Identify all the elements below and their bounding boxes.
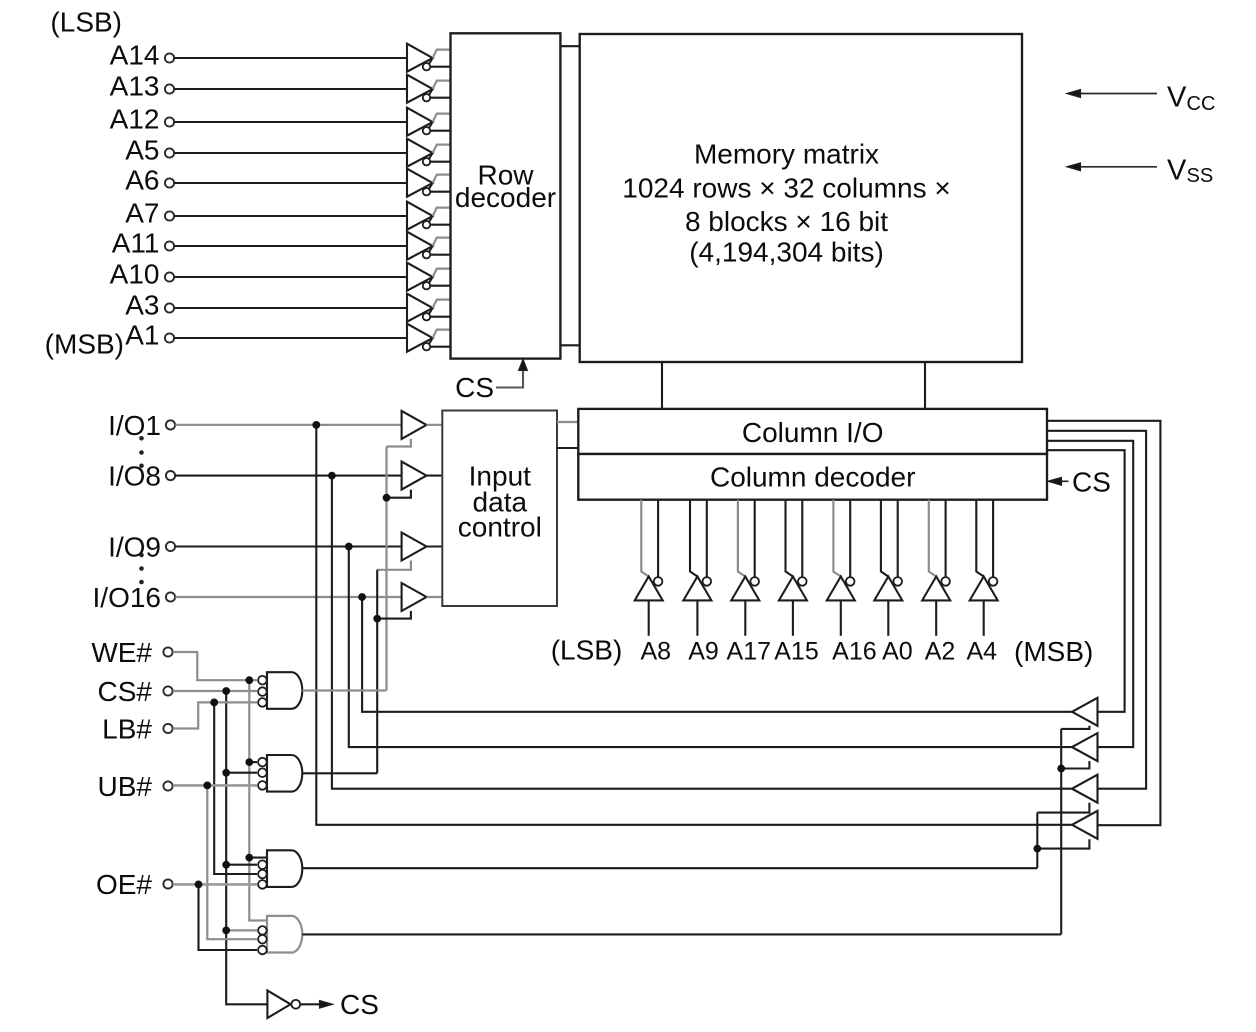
- I/O pin I/O16 terminal and wire: [93, 582, 402, 613]
- I/O pin I/O9 terminal and wire: [108, 532, 402, 563]
- wire WE# to gate3 plain input: [249, 857, 267, 859]
- ellipsis dots between I/O1 and I/O8: [139, 436, 144, 468]
- address buffer for A6 (true/complement outputs): [407, 169, 451, 197]
- I/O pin I/O8 terminal and wire: [108, 461, 402, 492]
- WE# wire to gate1: [173, 652, 257, 680]
- AND gate G3 (read lower byte) with input bubbles: [258, 850, 302, 888]
- svg-text:A12: A12: [110, 104, 160, 135]
- G1 output wire to input buffers 1-2 enable: [302, 689, 386, 691]
- junction CS#-gate2: [222, 769, 230, 777]
- UB# vertical wire to gate4: [207, 785, 257, 939]
- label A17: [727, 638, 771, 666]
- label (MSB) bottom: [1014, 636, 1093, 667]
- svg-text:A13: A13: [110, 71, 160, 102]
- input data buffer 3 (triangle): [402, 533, 443, 561]
- WE# vertical distribution wire: [249, 680, 267, 920]
- control input UB# terminal: [98, 771, 173, 802]
- column decoder box: [578, 454, 1047, 500]
- svg-text:CS: CS: [455, 372, 494, 403]
- svg-text:(4,194,304 bits): (4,194,304 bits): [689, 237, 884, 268]
- enable hook output buffer 2: [1061, 761, 1089, 768]
- enable hook buffer 4: [377, 611, 411, 619]
- label (MSB) left of A1: [45, 329, 124, 360]
- address input A11 terminal and wire: [112, 228, 407, 259]
- output buffer 4 (left triangle): [1072, 811, 1098, 839]
- svg-text:LB#: LB#: [102, 714, 152, 745]
- long vertical from I/O9 to output line: [349, 547, 1072, 748]
- svg-text:A5: A5: [125, 135, 159, 166]
- long vertical from I/O1 to output line: [316, 425, 1072, 825]
- junction UB#-gate2: [203, 782, 211, 790]
- row decoder U-ROWDEC box: [451, 33, 561, 358]
- UB# wire to gate2: [173, 784, 257, 787]
- CS# vertical distribution wire: [226, 691, 267, 1004]
- enable wire gate4 to output buffers 1-2: [1060, 729, 1062, 935]
- svg-text:A11: A11: [112, 228, 160, 259]
- svg-text:CS: CS: [1072, 466, 1111, 497]
- address input A10 terminal and wire: [110, 259, 407, 290]
- label (LSB) top: [50, 7, 122, 38]
- svg-text:A4: A4: [967, 638, 998, 666]
- Vcc power input arrow: [1069, 82, 1216, 116]
- output buffer 2 (left triangle): [1072, 733, 1098, 761]
- address input A3 terminal and wire: [125, 290, 407, 321]
- control input CS# terminal: [98, 676, 173, 707]
- long vertical from I/O8 to output line: [332, 476, 1072, 789]
- wire WE# to gate2 top input: [249, 761, 257, 763]
- address buffer for A13 (true/complement outputs): [407, 75, 451, 103]
- wire CS# to gate4 top input: [226, 929, 257, 931]
- junction WE#-gate2: [245, 758, 253, 766]
- junction I/O1: [312, 421, 320, 429]
- enable hook output buffer 4: [1037, 839, 1089, 848]
- svg-text:8 blocks × 16 bit: 8 blocks × 16 bit: [685, 206, 888, 237]
- address buffer for A3 (true/complement outputs): [407, 294, 451, 322]
- CS input to column decoder (arrow left): [1050, 466, 1111, 497]
- svg-text:V: V: [1167, 82, 1187, 114]
- wire matrix to column I/O right: [924, 362, 926, 409]
- svg-text:(MSB): (MSB): [1014, 636, 1093, 667]
- memory matrix box: [580, 34, 1022, 362]
- AND gate G2 (write upper byte) with input bubbles: [258, 755, 302, 792]
- G4 output wire to output buffers 1-2 enable: [302, 933, 1061, 935]
- svg-text:A9: A9: [688, 638, 719, 666]
- LB# vertical wire to gate3: [214, 702, 257, 874]
- svg-text:I/O9: I/O9: [108, 532, 161, 563]
- column I/O output line 3 (to output buffer 2): [1047, 441, 1133, 747]
- wire row decoder to matrix (top): [560, 45, 579, 47]
- address input A5 terminal and wire: [125, 135, 407, 166]
- column I/O output line 4 (to output buffer 1): [1047, 450, 1125, 712]
- G2 output wire to input buffers 3-4 enable: [302, 772, 377, 774]
- svg-text:decoder: decoder: [455, 182, 556, 213]
- junction CS#-gate3: [222, 861, 230, 869]
- junction WE#-gate3: [245, 854, 253, 862]
- svg-text:A14: A14: [110, 40, 160, 71]
- wire CS# to gate2 middle input: [226, 772, 257, 774]
- svg-text:1024 rows × 32 columns ×: 1024 rows × 32 columns ×: [622, 172, 950, 203]
- svg-text:A15: A15: [774, 638, 818, 666]
- column I/O output line 1 (to output buffer 4): [1047, 421, 1160, 825]
- label (LSB) bottom: [551, 635, 623, 666]
- svg-text:Column I/O: Column I/O: [742, 417, 884, 448]
- svg-text:CC: CC: [1187, 93, 1216, 115]
- junction CS#-gate1: [222, 687, 230, 695]
- address buffer for A11 (true/complement outputs): [407, 232, 451, 260]
- svg-text:A3: A3: [125, 290, 159, 321]
- svg-text:(MSB): (MSB): [45, 329, 124, 360]
- svg-text:SS: SS: [1187, 165, 1214, 187]
- svg-text:A16: A16: [832, 638, 876, 666]
- address buffer for A14 (true/complement outputs): [407, 44, 451, 72]
- column address buffer A4 (up triangle with bubble): [970, 500, 998, 636]
- control input LB# terminal: [102, 714, 172, 745]
- junction output buffers 1-2 enable: [1057, 765, 1065, 773]
- address input A14 terminal and wire: [110, 40, 407, 71]
- LB# wire to gate1: [173, 702, 257, 728]
- svg-text:(LSB): (LSB): [50, 7, 122, 38]
- CS inverter at bottom: [267, 991, 300, 1019]
- svg-text:control: control: [458, 511, 542, 542]
- svg-text:I/O16: I/O16: [93, 582, 161, 613]
- address input A6 terminal and wire: [125, 165, 407, 196]
- junction CS#-gate4: [222, 927, 230, 935]
- label A2: [925, 638, 956, 666]
- column address buffer A0 (up triangle with bubble): [874, 500, 902, 636]
- label A9: [688, 638, 719, 666]
- OE# wire to gate3: [173, 883, 257, 886]
- column address buffer A17 (up triangle with bubble): [731, 500, 759, 636]
- svg-text:UB#: UB#: [98, 771, 153, 802]
- svg-text:A1: A1: [125, 320, 159, 351]
- input data buffer 2 (triangle): [402, 462, 443, 490]
- address buffer for A12 (true/complement outputs): [407, 108, 451, 136]
- enable wire from gate1 to buffers 1-2: [385, 447, 387, 691]
- svg-text:A17: A17: [727, 638, 771, 666]
- label A16: [832, 638, 876, 666]
- enable wire gate3 to output buffers 3-4: [1036, 813, 1038, 869]
- enable hook output buffer 3: [1037, 803, 1089, 813]
- junction LB#-gate1: [210, 699, 218, 707]
- svg-text:Column decoder: Column decoder: [710, 462, 915, 493]
- CS# wire to gate1: [173, 690, 257, 692]
- svg-text:A0: A0: [882, 638, 913, 666]
- address input A1 terminal and wire: [125, 320, 407, 351]
- svg-text:CS#: CS#: [98, 676, 153, 707]
- CS input to row decoder (arrow up): [455, 361, 527, 404]
- enable hook output buffer 1: [1061, 726, 1089, 729]
- svg-text:I/O1: I/O1: [108, 410, 161, 441]
- junction I/O9: [345, 543, 353, 551]
- svg-text:Memory matrix: Memory matrix: [694, 139, 879, 170]
- wire input data control to column I/O (lower): [557, 447, 578, 449]
- junction OE#: [195, 881, 203, 889]
- address buffer for A10 (true/complement outputs): [407, 263, 451, 291]
- output buffer 1 (left triangle): [1072, 698, 1098, 726]
- enable hook buffer 2: [387, 490, 411, 498]
- junction output buffers 3-4 enable: [1033, 845, 1041, 853]
- ellipsis dots between I/O9 and I/O16: [139, 553, 144, 585]
- column I/O output line 2 (to output buffer 3): [1047, 431, 1146, 789]
- wire input data control to column I/O (upper): [557, 421, 578, 423]
- long vertical from I/O16 to output line: [362, 597, 1072, 712]
- address input A13 terminal and wire: [110, 71, 407, 102]
- enable wire from gate2 to buffers 3-4: [376, 570, 378, 774]
- input data buffer 1 (triangle): [402, 411, 443, 439]
- enable hook buffer 3: [377, 561, 411, 570]
- column address buffer A8 (up triangle with bubble): [635, 500, 663, 636]
- enable hook buffer 1: [387, 439, 411, 447]
- column address buffer A2 (up triangle with bubble): [922, 500, 950, 636]
- control input WE# terminal: [91, 637, 172, 668]
- address buffer for A1 (true/complement outputs): [407, 324, 451, 352]
- output buffer 3 (left triangle): [1072, 775, 1098, 803]
- address buffer for A7 (true/complement outputs): [407, 202, 451, 230]
- svg-text:WE#: WE#: [91, 637, 152, 668]
- svg-text:A10: A10: [110, 259, 160, 290]
- CS output arrow: [300, 989, 379, 1020]
- AND gate G4 (read upper byte) with input bubbles: [258, 916, 302, 954]
- label A15: [774, 638, 818, 666]
- svg-text:(LSB): (LSB): [551, 635, 623, 666]
- OE# vertical wire to gate4: [199, 884, 258, 950]
- svg-text:I/O8: I/O8: [108, 461, 161, 492]
- svg-text:A2: A2: [925, 638, 956, 666]
- address input A12 terminal and wire: [110, 104, 407, 135]
- input data buffer 4 (triangle): [402, 583, 443, 611]
- Vss power input arrow: [1069, 155, 1214, 188]
- column address buffer A15 (up triangle with bubble): [779, 500, 807, 636]
- svg-text:A8: A8: [641, 638, 672, 666]
- junction I/O16: [358, 593, 366, 601]
- junction buffers 3-4 enable: [373, 615, 381, 623]
- junction I/O8: [328, 472, 336, 480]
- column address buffer A16 (up triangle with bubble): [827, 500, 855, 636]
- svg-text:OE#: OE#: [96, 869, 152, 900]
- wire CS# to gate3 top input: [226, 864, 257, 866]
- junction WE#-gate1: [245, 676, 253, 684]
- label A0: [882, 638, 913, 666]
- junction buffers 1-2 enable: [383, 494, 391, 502]
- input data control box: [442, 411, 557, 607]
- label A8: [641, 638, 672, 666]
- control input OE# terminal: [96, 869, 173, 900]
- wire row decoder to matrix (bottom): [560, 344, 579, 346]
- label A4: [967, 638, 998, 666]
- I/O pin I/O1 terminal and wire: [108, 410, 402, 441]
- svg-text:A6: A6: [125, 165, 159, 196]
- AND gate G1 (write lower byte) with input bubbles: [258, 672, 302, 709]
- column address buffer A9 (up triangle with bubble): [683, 500, 711, 636]
- address buffer for A5 (true/complement outputs): [407, 139, 451, 167]
- svg-text:CS: CS: [340, 989, 379, 1020]
- svg-text:V: V: [1167, 155, 1187, 187]
- column I/O box: [578, 409, 1047, 454]
- address input A7 terminal and wire: [125, 198, 407, 229]
- svg-text:A7: A7: [125, 198, 159, 229]
- wire matrix to column I/O left: [661, 362, 663, 409]
- G3 output wire to output buffers 3-4 enable: [302, 867, 1037, 869]
